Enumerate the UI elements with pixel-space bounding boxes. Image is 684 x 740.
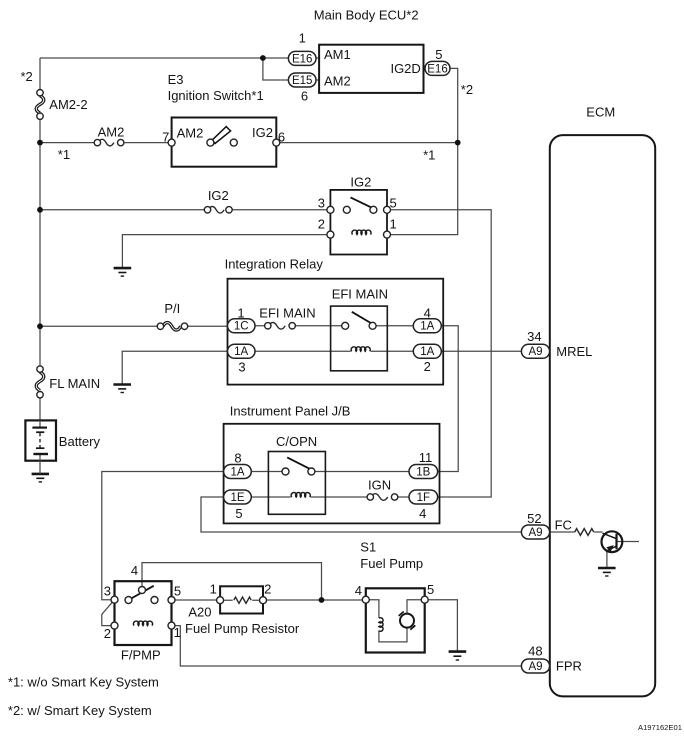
svg-text:FL MAIN: FL MAIN (49, 376, 100, 391)
svg-text:S1: S1 (360, 540, 376, 555)
svg-text:Main Body ECU*2: Main Body ECU*2 (314, 8, 419, 23)
svg-text:5: 5 (427, 582, 434, 597)
svg-text:1F: 1F (417, 492, 430, 504)
svg-text:*2: w/ Smart Key System: *2: w/ Smart Key System (8, 703, 152, 718)
svg-text:5: 5 (390, 196, 397, 211)
svg-text:1C: 1C (234, 321, 249, 333)
svg-text:2: 2 (104, 626, 111, 641)
svg-text:4: 4 (131, 563, 138, 578)
svg-text:52: 52 (527, 511, 541, 526)
svg-text:1E: 1E (230, 492, 244, 504)
svg-text:*2: *2 (21, 69, 33, 84)
svg-text:*1: w/o Smart Key System: *1: w/o Smart Key System (8, 675, 159, 690)
svg-text:AM2: AM2 (98, 124, 125, 139)
svg-text:*1: *1 (423, 148, 435, 163)
svg-text:3: 3 (238, 359, 245, 374)
svg-text:IGN: IGN (368, 478, 391, 493)
svg-text:1: 1 (390, 217, 397, 232)
svg-text:3: 3 (318, 196, 325, 211)
svg-text:5: 5 (435, 47, 442, 62)
svg-text:11: 11 (419, 450, 433, 465)
svg-text:Fuel Pump Resistor: Fuel Pump Resistor (185, 621, 300, 636)
svg-text:Instrument Panel J/B: Instrument Panel J/B (230, 404, 351, 419)
svg-text:Integration Relay: Integration Relay (225, 257, 324, 272)
svg-text:4: 4 (424, 306, 431, 321)
svg-text:IG2: IG2 (350, 174, 371, 189)
svg-text:ECM: ECM (586, 105, 615, 120)
svg-text:MREL: MREL (556, 344, 592, 359)
svg-text:1A: 1A (420, 321, 434, 333)
svg-text:2: 2 (264, 582, 271, 597)
svg-text:A20: A20 (188, 605, 211, 620)
svg-text:1A: 1A (234, 346, 248, 358)
svg-text:1: 1 (174, 625, 181, 640)
svg-text:5: 5 (174, 583, 181, 598)
svg-text:AM2: AM2 (324, 73, 351, 88)
svg-text:Ignition Switch*1: Ignition Switch*1 (168, 88, 264, 103)
svg-text:E3: E3 (168, 72, 184, 87)
svg-text:1A: 1A (230, 466, 244, 478)
svg-text:AM2-2: AM2-2 (49, 97, 87, 112)
svg-text:C/OPN: C/OPN (276, 434, 317, 449)
svg-text:EFI MAIN: EFI MAIN (332, 287, 388, 302)
svg-text:EFI MAIN: EFI MAIN (259, 306, 315, 321)
svg-text:4: 4 (419, 506, 426, 521)
svg-text:A197162E01: A197162E01 (638, 723, 682, 732)
svg-text:1: 1 (299, 30, 306, 45)
svg-text:P/I: P/I (164, 301, 180, 316)
svg-text:IG2: IG2 (208, 188, 229, 203)
svg-text:48: 48 (528, 643, 542, 658)
svg-text:5: 5 (235, 506, 242, 521)
svg-text:1: 1 (210, 582, 217, 597)
svg-text:7: 7 (162, 129, 169, 144)
svg-text:E15: E15 (292, 75, 312, 87)
svg-text:8: 8 (234, 451, 241, 466)
svg-text:AM2: AM2 (177, 125, 204, 140)
svg-text:6: 6 (301, 89, 308, 104)
svg-text:AM1: AM1 (324, 47, 351, 62)
svg-text:E16: E16 (427, 63, 447, 75)
svg-text:2: 2 (318, 217, 325, 232)
svg-text:A9: A9 (528, 527, 542, 539)
svg-text:34: 34 (527, 329, 541, 344)
svg-text:*2: *2 (461, 82, 473, 97)
svg-text:3: 3 (104, 583, 111, 598)
svg-text:E16: E16 (292, 53, 312, 65)
svg-text:F/PMP: F/PMP (121, 648, 161, 663)
svg-text:*1: *1 (58, 147, 70, 162)
svg-text:A9: A9 (528, 661, 542, 673)
svg-text:A9: A9 (528, 346, 542, 358)
svg-text:Battery: Battery (59, 434, 101, 449)
svg-text:IG2: IG2 (252, 125, 273, 140)
svg-text:FC: FC (555, 517, 572, 532)
svg-text:1A: 1A (420, 346, 434, 358)
svg-text:2: 2 (424, 359, 431, 374)
svg-text:Fuel Pump: Fuel Pump (360, 556, 423, 571)
svg-text:FPR: FPR (556, 659, 582, 674)
svg-text:IG2D: IG2D (390, 61, 420, 76)
svg-text:4: 4 (355, 583, 362, 598)
svg-text:6: 6 (278, 129, 285, 144)
svg-text:1: 1 (237, 306, 244, 321)
svg-text:1B: 1B (416, 466, 430, 478)
